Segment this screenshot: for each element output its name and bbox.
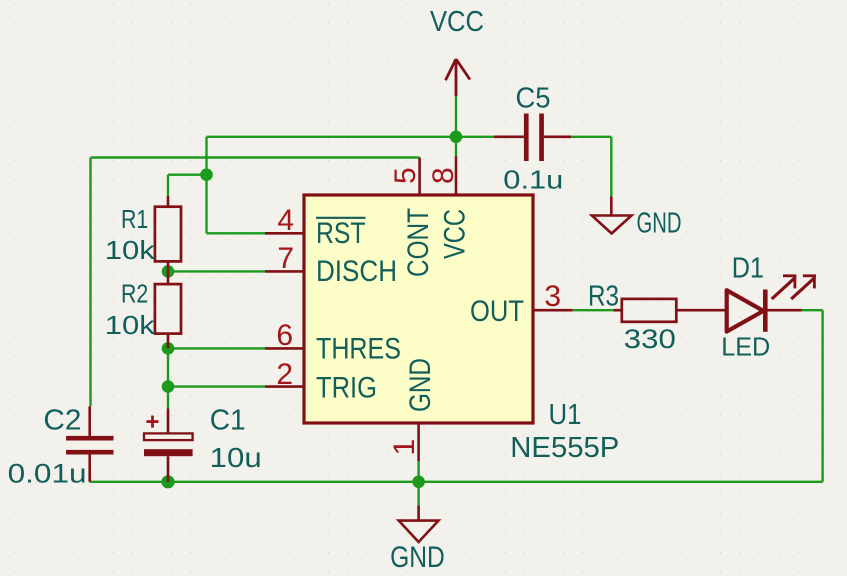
junction R2 bottom node (162, 342, 175, 355)
svg-text:GND: GND (637, 207, 682, 239)
wire R1 top link horizontal (168, 173, 207, 175)
svg-text:330: 330 (624, 324, 676, 354)
svg-text:THRES: THRES (316, 332, 401, 365)
svg-text:5: 5 (389, 167, 422, 184)
pin 5 (418, 158, 421, 196)
svg-text:GND: GND (404, 358, 437, 412)
wire C5 corner down to GND (610, 137, 612, 197)
svg-text:10u: 10u (210, 442, 262, 473)
pin 3 (533, 309, 573, 312)
svg-text:0.1u: 0.1u (503, 165, 563, 195)
wire pin7 horizontal (168, 270, 265, 272)
wire R2 bottom to TRIG row (167, 348, 169, 386)
svg-text:VCC: VCC (430, 6, 484, 38)
pin 2 (265, 385, 304, 388)
svg-text:R2: R2 (121, 279, 148, 309)
power VCC symbol (446, 59, 470, 96)
svg-text:4: 4 (277, 204, 294, 237)
svg-text:0.01u: 0.01u (8, 458, 87, 488)
svg-text:2: 2 (276, 358, 293, 391)
svg-text:8: 8 (427, 167, 460, 184)
svg-text:U1: U1 (549, 399, 582, 431)
wire junction to GND symbol (417, 482, 419, 505)
svg-text:LED: LED (721, 332, 770, 362)
svg-text:RST: RST (316, 217, 366, 250)
wire left vertical to pin4 row (205, 137, 207, 234)
wire pin4 horizontal (207, 232, 266, 234)
pin 7 (265, 270, 304, 273)
capacitor C5 (494, 114, 571, 162)
junction C1 bottom node (161, 475, 174, 488)
svg-text:6: 6 (276, 319, 293, 352)
wire bottom rail (90, 481, 823, 483)
pin 6 (265, 347, 304, 350)
resistor R3 (613, 299, 726, 322)
diode D1 LED (727, 275, 816, 332)
pin 8 (455, 157, 458, 196)
wire R1 top link vertical (167, 175, 169, 196)
resistor R1 (155, 196, 181, 272)
wire to pin 8 (455, 137, 457, 157)
svg-text:R3: R3 (588, 281, 619, 313)
wire pin2 horizontal (168, 385, 265, 387)
resistor R2 (155, 271, 181, 348)
svg-text:OUT: OUT (470, 295, 524, 328)
svg-text:C5: C5 (516, 82, 551, 114)
svg-text:R1: R1 (121, 204, 148, 234)
svg-text:NE555P: NE555P (510, 432, 619, 464)
op IC U1 body (304, 195, 533, 423)
wire left rail vertical (89, 158, 91, 407)
junction VCC node (450, 131, 463, 144)
wire OUT to R3 (573, 309, 614, 311)
pin 4 (265, 232, 304, 235)
svg-text:DISCH: DISCH (316, 255, 397, 288)
wire pin6 horizontal (168, 347, 265, 349)
wire pin1 to junction (417, 461, 419, 482)
ground symbol right (592, 197, 632, 234)
svg-text:TRIG: TRIG (316, 371, 377, 404)
ground symbol bottom (399, 505, 439, 542)
pin 1 (417, 423, 420, 461)
capacitor C1 polarized (144, 409, 193, 482)
svg-text:C2: C2 (43, 404, 81, 436)
junction R1 top node (200, 168, 213, 181)
wire right rail vertical (821, 310, 823, 482)
junction pin1 node (412, 476, 425, 489)
capacitor C2 (66, 406, 113, 481)
svg-text:CONT: CONT (402, 208, 435, 277)
svg-text:C1: C1 (210, 404, 246, 436)
wire C5 right to corner (571, 136, 611, 138)
wire VCC symbol drop (455, 96, 457, 137)
wire CONT rail horizontal (91, 156, 420, 158)
pin name RST overline (316, 217, 366, 219)
wire LED cathode to corner (802, 309, 823, 311)
svg-text:D1: D1 (732, 252, 764, 284)
svg-text:7: 7 (277, 242, 294, 275)
svg-text:3: 3 (544, 280, 561, 313)
junction R1-R2 node (162, 265, 175, 278)
wire to C1 top (167, 387, 169, 409)
svg-text:10k: 10k (105, 235, 156, 265)
wire VCC rail top (207, 136, 495, 138)
svg-text:GND: GND (390, 541, 445, 574)
svg-text:1: 1 (388, 439, 421, 456)
svg-text:10k: 10k (105, 310, 156, 340)
junction TRIG-C1 node (162, 380, 175, 393)
svg-text:VCC: VCC (439, 209, 472, 259)
